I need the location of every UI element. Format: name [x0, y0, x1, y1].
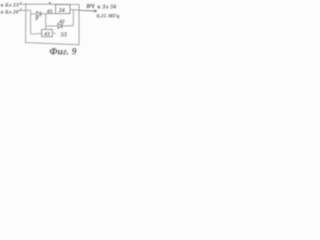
diode D2 triangle — [58, 23, 62, 28]
wire box 24 output — [70, 9, 79, 12]
svg-text:55: 55 — [61, 32, 68, 39]
enclosure outer box — [26, 3, 79, 45]
wire lower horizontal to diode D2 — [46, 25, 58, 27]
tick on input 2 — [20, 8, 22, 11]
svg-text:ВЧ: ВЧ — [85, 4, 95, 10]
svg-text:43: 43 — [43, 31, 50, 37]
svg-text:к Бл 20: к Бл 20 — [1, 9, 19, 15]
wire vertical branch down — [45, 14, 47, 30]
svg-text:0,15 МГц: 0,15 МГц — [97, 14, 120, 20]
wire input 2 — [19, 9, 31, 11]
diode D1 cathode bar — [40, 11, 42, 16]
wire vertical from input 2 down — [30, 10, 32, 34]
wire vertical diode branch up — [72, 10, 74, 26]
output arrowhead — [94, 9, 97, 12]
wire input 1 — [19, 3, 26, 5]
wire D1 to box 24 — [41, 13, 56, 15]
svg-text:б1: б1 — [47, 8, 53, 15]
output arrow line — [79, 9, 95, 12]
svg-text:к Бл 23: к Бл 23 — [1, 2, 19, 8]
svg-text:24: 24 — [58, 8, 65, 14]
wire bottom horizontal to box 43 — [31, 33, 42, 35]
box 24 — [56, 5, 70, 14]
diode D2 cathode bar — [61, 23, 63, 28]
svg-text:Фиг. 9: Фиг. 9 — [50, 48, 77, 57]
svg-text:к Зл 56: к Зл 56 — [98, 4, 117, 10]
box 43 — [42, 29, 53, 36]
wire box 43 stub right — [52, 32, 56, 34]
diode D1 label strokes — [35, 16, 39, 21]
tick on input 1 — [20, 2, 22, 5]
diode D1 triangle — [37, 11, 41, 16]
wire branch to diode D1 — [31, 13, 37, 15]
wire diode D2 output — [62, 25, 73, 27]
